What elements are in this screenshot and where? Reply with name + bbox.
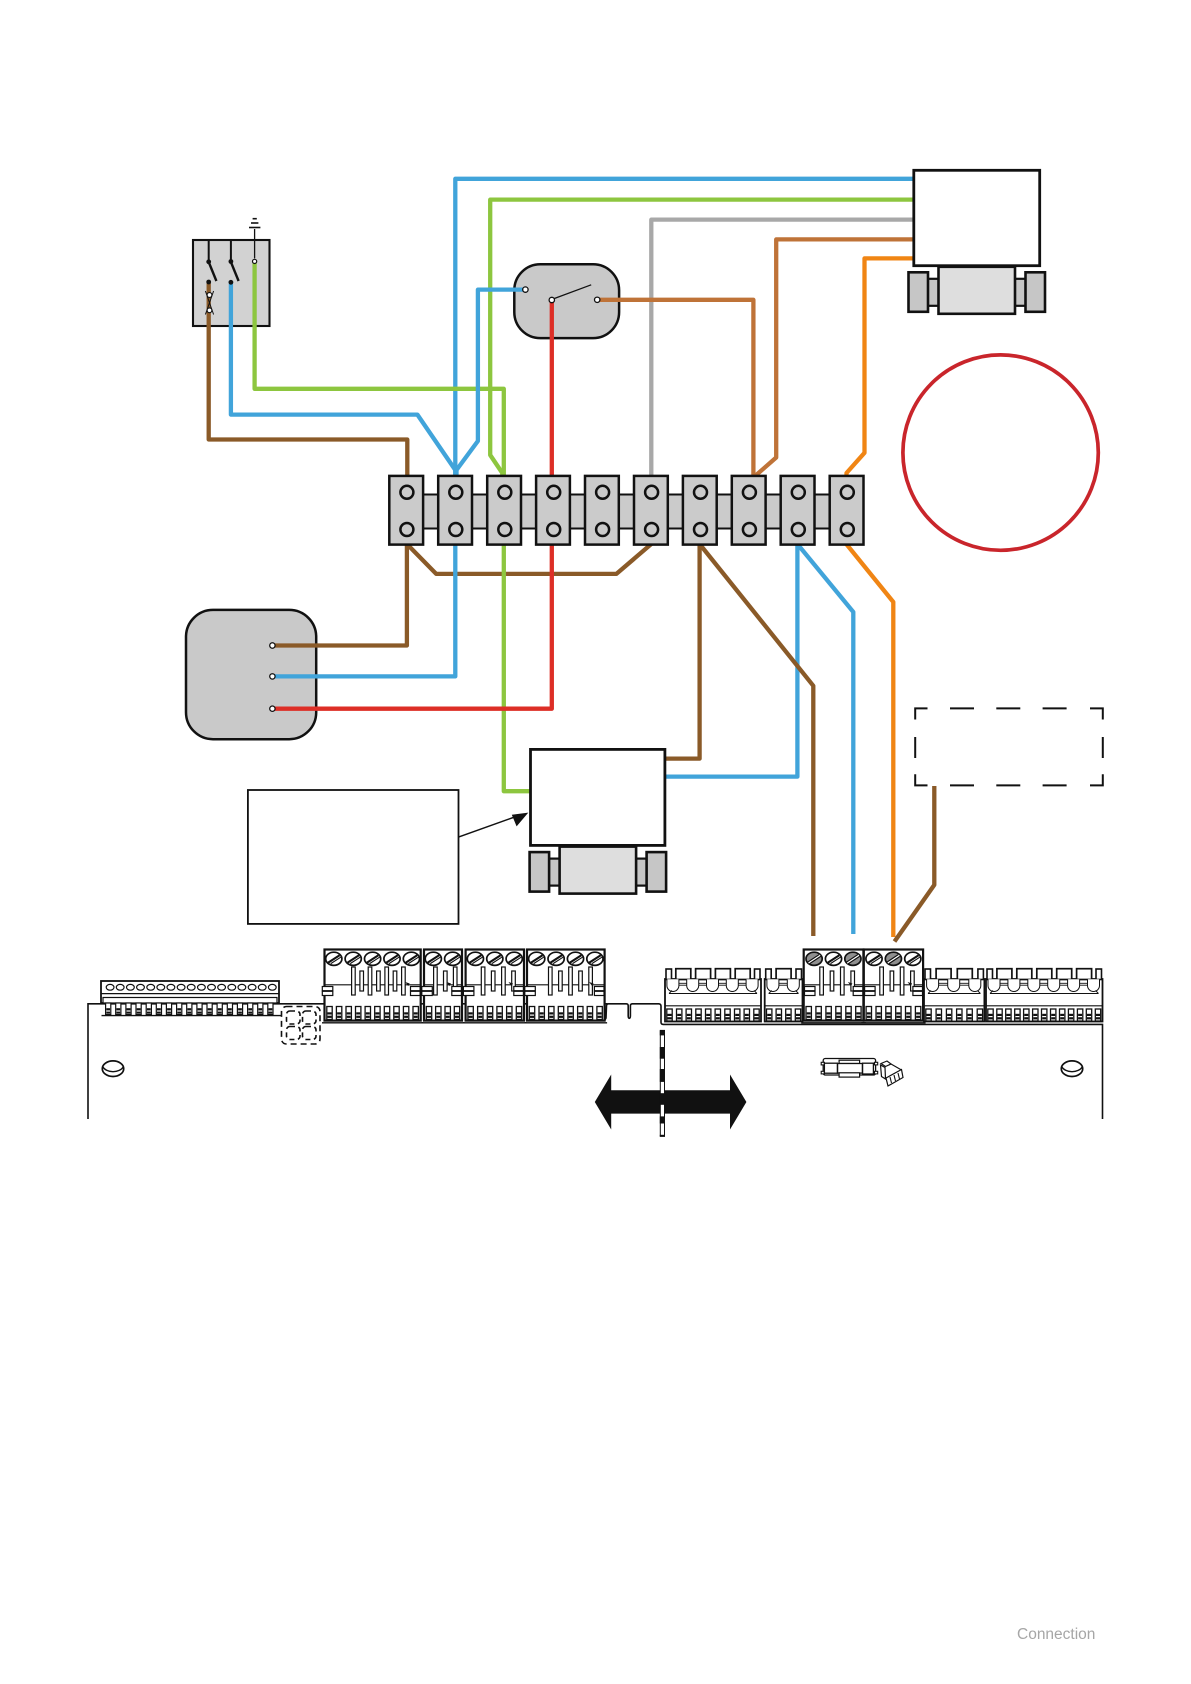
- PCB mounting hole left: [102, 1061, 123, 1077]
- PCB header block J4 (6-way): [924, 969, 984, 1022]
- terminal block 4: [536, 476, 570, 545]
- PCB screw terminal block TB2 (2-way): [422, 950, 465, 1023]
- PCB outline: [88, 1004, 1103, 1119]
- wire green: terminal 3 to mid-position valve V2: [504, 542, 532, 791]
- fuse F1 on PCB: [821, 1059, 878, 1078]
- striped divider line: [660, 1030, 665, 1136]
- wire blue: terminal 9 to mid-position valve V2: [663, 542, 797, 777]
- wire brown: frost thermostat to PCB terminal: [895, 786, 935, 942]
- pump circle: [903, 355, 1098, 550]
- PCB header block J5 (13-way): [986, 969, 1103, 1022]
- double-headed arrow: [595, 1075, 747, 1130]
- PCB mounting hole right: [1061, 1061, 1082, 1077]
- programmer: [270, 643, 275, 712]
- wire brown: terminal 7 to PCB terminal: [700, 544, 814, 936]
- terminal block 1: [389, 476, 423, 545]
- wire blue: room stat to terminal 2: [457, 290, 526, 476]
- wire blue: isolator N to terminal 2: [231, 281, 455, 478]
- room thermostat: [523, 285, 600, 303]
- wire brown: terminal 7 to mid-position valve V2: [663, 542, 700, 759]
- wire red: room stat switched live to terminal 4: [550, 300, 554, 478]
- mid-position valve V2: [530, 749, 667, 893]
- wire red: terminal 4 to programmer: [272, 542, 551, 709]
- dashed jumper-link box: [282, 1007, 321, 1045]
- terminal block 2: [438, 476, 472, 545]
- terminal block 5: [585, 476, 619, 545]
- PCB header block J3 (4-way): [765, 969, 803, 1022]
- PCB header block J2 (10-way): [665, 969, 761, 1022]
- wire blue: terminal 9 to PCB terminal: [797, 544, 853, 934]
- wire green: zone valve V1 earth to terminal 3: [490, 200, 915, 478]
- PCB screw terminal block TB6 (3-way, zone valve wires): [861, 950, 925, 1023]
- motorised zone valve V1: [909, 170, 1046, 313]
- fuse in isolator: [205, 291, 213, 315]
- wire brown: room stat live to terminal 8: [597, 300, 753, 478]
- PCB screw terminal block TB3 (3-way): [463, 950, 526, 1023]
- PCB screw terminal block TB5 (3-way, zone valve wires): [801, 950, 866, 1023]
- dashed box (frost thermostat): [915, 708, 1103, 785]
- mains isolator switch: [206, 241, 238, 285]
- room thermostat body: [514, 264, 619, 338]
- PCB screw terminal block TB4 (4-way): [525, 950, 608, 1023]
- wire green: isolator E to terminal 3: [255, 263, 504, 478]
- terminal block 10: [830, 476, 864, 545]
- terminal strip connecting bar: [395, 495, 857, 529]
- terminal block 8: [732, 476, 766, 545]
- mains isolator switch body: [193, 240, 270, 326]
- terminal block 9: [781, 476, 815, 545]
- wire blue: zone valve V1 to terminal 2: [455, 179, 915, 478]
- wire brown: zone valve V1 to terminal 8: [757, 239, 915, 478]
- wire grey: zone valve V1 to terminal 6: [651, 220, 915, 478]
- terminal block 6: [634, 476, 668, 545]
- wire brown jumper: terminal 1 to terminal 6: [407, 544, 651, 574]
- programmer body: [186, 610, 316, 739]
- wire orange: terminal 10 to PCB terminal: [846, 544, 893, 937]
- small connector sketch next to fuse: [881, 1061, 904, 1086]
- ground symbol: [249, 219, 260, 264]
- wire orange: zone valve V1 to terminal 10: [847, 258, 916, 478]
- terminal block 3: [487, 476, 521, 545]
- PCB 17-way connector J1: [101, 981, 282, 1016]
- wire brown: terminal 1 to programmer: [272, 542, 407, 646]
- PCB screw terminal block TB1 (5-way): [322, 950, 423, 1023]
- wire blue: terminal 2 to programmer: [272, 542, 455, 676]
- wire brown: isolator L to terminal 1: [209, 281, 408, 478]
- svg-text:Connection: Connection: [1017, 1626, 1095, 1643]
- label box: [248, 790, 459, 924]
- arrow from label box to valve V2: [459, 817, 517, 838]
- terminal block 7: [683, 476, 717, 545]
